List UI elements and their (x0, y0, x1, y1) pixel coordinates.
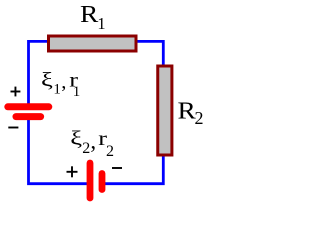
minus sign battery 2 (112, 167, 122, 169)
wire: R1 right lead to top-right corner down to R2 top (137, 41, 164, 66)
svg-text:,: , (90, 129, 96, 154)
svg-text:1: 1 (73, 84, 81, 100)
svg-text:2: 2 (106, 143, 114, 160)
battery cell 2 long plate (bottom) (87, 163, 94, 198)
battery cell 1 short plate (16, 113, 41, 120)
svg-text:2: 2 (82, 140, 90, 157)
svg-text:1: 1 (97, 14, 105, 33)
wire: battery 1 bottom to bottom-left corner to battery 2 left (29, 118, 90, 184)
battery cell 1 long plate (left side) (8, 103, 49, 110)
minus sign battery 1 (8, 127, 18, 129)
battery cell 2 short plate (99, 174, 106, 190)
plus sign battery 2 (67, 166, 78, 177)
svg-text:ξ: ξ (70, 127, 82, 149)
wire: top-left corner, R1 left lead to battery 1 top (29, 41, 48, 106)
svg-text:1: 1 (53, 82, 61, 98)
svg-text:ξ: ξ (41, 69, 53, 91)
wire: R2 bottom to bottom-right corner to battery 2 right (103, 155, 164, 184)
plus sign battery 1 (11, 87, 21, 97)
resistor R2 (right) (158, 66, 172, 155)
svg-text:,: , (61, 71, 66, 93)
svg-text:2: 2 (195, 108, 204, 128)
resistor R1 (top) (49, 36, 137, 51)
svg-text:R: R (80, 0, 99, 27)
